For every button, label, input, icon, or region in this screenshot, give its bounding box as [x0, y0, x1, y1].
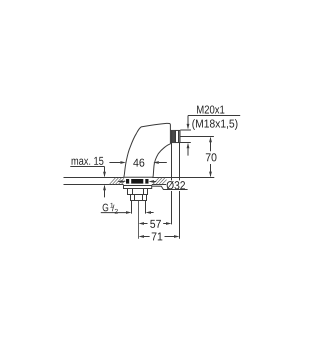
deck bottom line [64, 184, 124, 186]
nut tier2 [131, 195, 147, 201]
diameter leader + underline [152, 186, 188, 189]
deck hatch left [110, 178, 126, 184]
outlet bottom up arrow [187, 144, 189, 155]
max15 leader + arrows [70, 166, 104, 168]
46 dim [109, 162, 120, 164]
57 dim [139, 222, 145, 225]
M20 label underline [188, 115, 240, 117]
gasket right arrow [153, 181, 156, 183]
label max. 15 [72, 157, 104, 165]
nose top ext line [180, 129, 191, 131]
gasket left arrow [118, 181, 121, 183]
label 70 [206, 153, 217, 161]
nose bottom ext line [180, 142, 191, 144]
tap body outline [124, 123, 171, 177]
label (M18x1,5) [192, 119, 237, 130]
centerline [138, 201, 140, 239]
shank [131, 201, 133, 214]
outlet thread (dark hatched) [171, 130, 176, 142]
label diameter 32 [167, 181, 185, 190]
label 71 [152, 232, 163, 240]
71 right ext line [179, 143, 181, 181]
G1/2 right arrow [151, 212, 154, 214]
57 right ext line [171, 143, 173, 181]
G1/2 left arrow [101, 212, 127, 214]
label 46 [133, 159, 144, 167]
label M20x1 [197, 105, 224, 113]
M20 leader down arrow [187, 116, 189, 129]
70 dim line [210, 138, 212, 151]
outlet collar lines [175, 131, 177, 143]
deck top line [64, 177, 124, 179]
nut tier1 [128, 189, 148, 195]
nose centerline ext [180, 136, 214, 138]
deck hatch right [153, 178, 167, 184]
washer [124, 186, 152, 189]
label G 1/2 [103, 203, 118, 214]
71 dim [139, 235, 145, 238]
label 57 [150, 220, 161, 228]
outlet nose outline [171, 130, 180, 142]
gasket black band [126, 179, 149, 184]
